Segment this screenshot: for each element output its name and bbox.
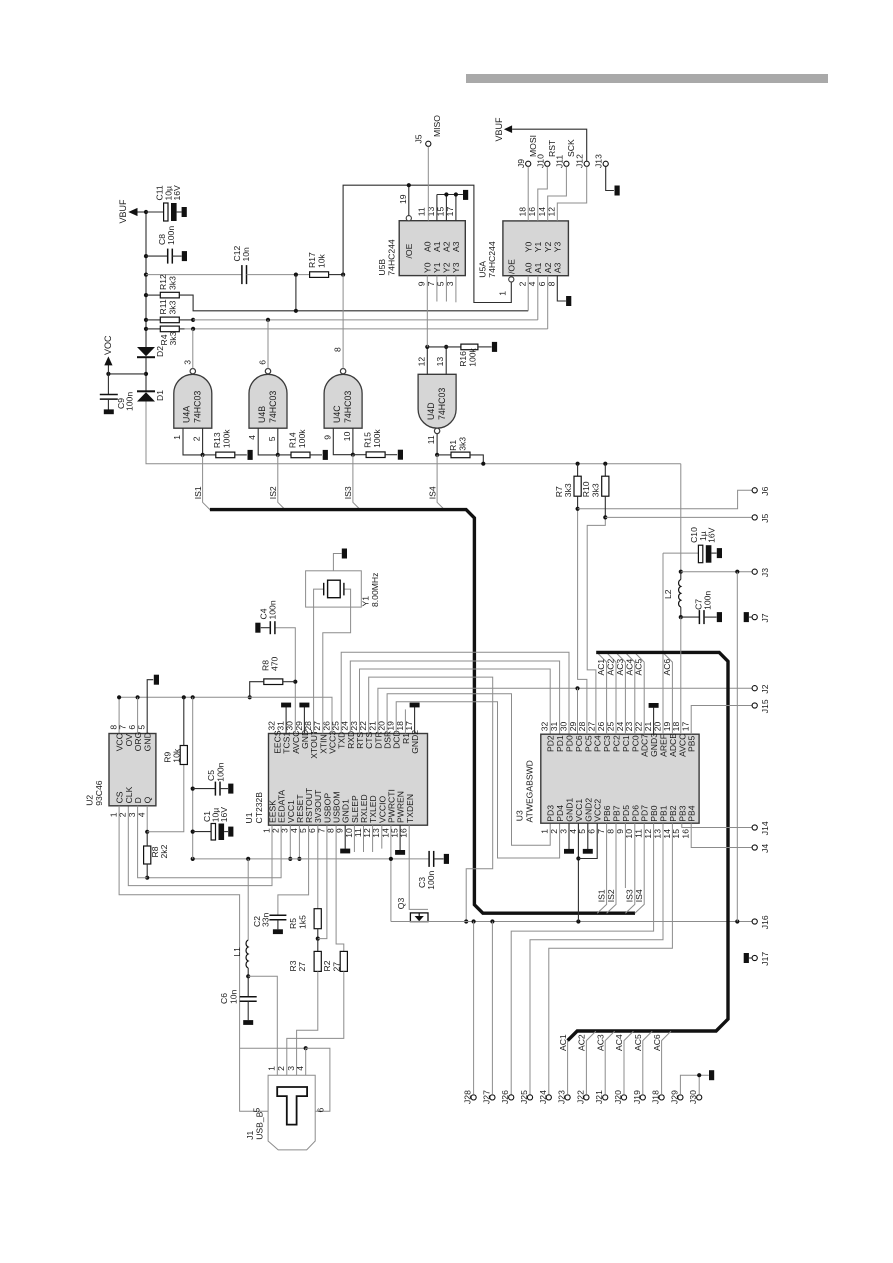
wire U5A A0 to R12 net [527, 276, 529, 311]
inductor L1 [246, 940, 248, 968]
svg-text:100n: 100n [702, 591, 712, 610]
junction VCC1 U3 [576, 919, 580, 923]
gate U4A [174, 374, 212, 428]
wire rail to C12 [146, 274, 242, 276]
wire C5 to ground [220, 788, 228, 790]
wire U4D pin12 [426, 347, 428, 374]
wire to R8 2k2 [146, 832, 148, 846]
svg-text:14: 14 [537, 207, 547, 217]
wire U5A A2 to R4 net [547, 276, 549, 329]
junction R9 VCC [182, 695, 186, 699]
svg-text:1: 1 [267, 1066, 277, 1071]
ground U5B A-tie [463, 190, 468, 200]
wire L2 to AVCC [680, 617, 682, 734]
wire IS1 entry [597, 823, 606, 913]
svg-text:U5B: U5B [377, 259, 387, 276]
svg-text:100k: 100k [468, 347, 478, 366]
header rule bar [466, 74, 828, 83]
svg-text:/OE: /OE [404, 243, 414, 258]
svg-text:1: 1 [172, 435, 182, 440]
wire U5B A3 stub [455, 195, 457, 221]
wire U3 GND1 stub [568, 823, 570, 849]
junction R12 riser [294, 309, 298, 313]
wire right VBUF rail [736, 572, 738, 922]
svg-text:J9: J9 [516, 159, 526, 168]
svg-text:U1: U1 [244, 812, 254, 823]
wire VBUF rail upper [145, 212, 147, 347]
wire R8 to AVCC [283, 681, 296, 683]
wire PB1 to J25 [530, 823, 663, 1095]
wire VOC tee [108, 373, 146, 375]
wire IS3 riser [353, 455, 360, 510]
wire J17 stub [749, 957, 752, 959]
connector J17 [752, 955, 757, 960]
wire U4D pin13 [445, 347, 447, 374]
wire node to R9 [147, 765, 184, 832]
svg-text:J14: J14 [760, 821, 770, 835]
svg-text:10k: 10k [172, 748, 182, 763]
svg-text:A2: A2 [442, 241, 452, 252]
svg-text:J21: J21 [594, 1090, 604, 1104]
transistor Q3 [410, 913, 428, 922]
junction R7 J6 [576, 507, 580, 511]
junction VCC U2 [117, 695, 121, 699]
USB T glyph [277, 1087, 307, 1125]
junction R10 top [603, 462, 607, 466]
wire R4 stub [179, 328, 184, 330]
junction L1 [246, 857, 250, 861]
svg-text:USB_B: USB_B [255, 1111, 265, 1139]
wire AC2 riser [586, 1031, 595, 1095]
wire IS4 entry [635, 823, 644, 913]
svg-text:L2: L2 [663, 589, 673, 599]
svg-text:Y0: Y0 [524, 241, 534, 252]
svg-text:6: 6 [316, 1108, 326, 1113]
svg-text:27: 27 [331, 962, 341, 972]
wire AC5 riser [643, 1031, 652, 1095]
svg-text:J18: J18 [651, 1090, 661, 1104]
wire 3V3OUT to R5 [317, 825, 319, 908]
svg-text:AC6: AC6 [652, 1034, 662, 1051]
svg-text:93C46: 93C46 [94, 780, 104, 806]
junction right rail top [735, 570, 739, 574]
junction VOC [144, 372, 148, 376]
capacitor C7 [699, 610, 704, 624]
svg-text:AC1: AC1 [558, 1034, 568, 1051]
connector J2 [752, 686, 757, 691]
connector J26 [509, 1095, 514, 1100]
wire AC6 bus entry [664, 653, 673, 734]
junction L2 C7 [679, 615, 683, 619]
svg-text:J29: J29 [669, 1090, 679, 1104]
wire RXLED stub [363, 825, 365, 852]
wire pin31 stub [285, 707, 287, 734]
wire rail lower [146, 401, 681, 464]
wire R12 net riser [295, 275, 297, 311]
wire AVCC net [275, 628, 295, 734]
svg-text:IS1: IS1 [193, 486, 203, 499]
connector J5 (MISO) [426, 141, 431, 146]
wire TXD to U3 PD0 [341, 652, 569, 734]
gate U4B [249, 374, 287, 428]
wire AREF riser [662, 553, 664, 734]
junction C-rail VCC [191, 695, 195, 699]
wire VBUF arrow stub [138, 211, 147, 213]
wire SLEEP stub [353, 825, 355, 852]
wire to R16 [427, 346, 461, 348]
wire MISO to U5B A0 [427, 147, 429, 221]
connector J18 [659, 1095, 664, 1100]
svg-text:U2: U2 [85, 795, 95, 806]
svg-text:PB5: PB5 [687, 736, 697, 752]
wire J10 to U5A Y1 [538, 166, 548, 221]
svg-text:3k3: 3k3 [458, 437, 468, 451]
wire IS4 riser [437, 455, 444, 510]
wire XTIN to Y1 [323, 589, 351, 733]
wire J11 to U5A Y2 [548, 166, 567, 221]
svg-text:TXDEN: TXDEN [405, 794, 415, 823]
junction rail left [191, 857, 195, 861]
wire U3 VCC2 [578, 823, 597, 858]
wire EEDATA to U2 [147, 825, 281, 878]
ground U2 [154, 675, 159, 685]
junction C12-R12 node [294, 273, 298, 277]
svg-text:9: 9 [417, 281, 427, 286]
junction CTS [464, 919, 468, 923]
svg-text:J25: J25 [519, 1090, 529, 1104]
wire C7 to ground [704, 616, 717, 618]
svg-text:3k3: 3k3 [167, 300, 177, 314]
wire to C5 [193, 788, 216, 790]
svg-text:Y1: Y1 [361, 596, 371, 607]
svg-text:100k: 100k [297, 429, 307, 448]
wire R11 net to U5A A1 [193, 319, 538, 321]
wire L2 in [680, 572, 682, 580]
svg-text:A0: A0 [524, 262, 534, 273]
junction C1 [191, 830, 195, 834]
ground U1 GND1 [340, 849, 350, 854]
connector J6 [752, 488, 757, 493]
wire IS1 riser [203, 455, 210, 510]
wire DCD to U3 PD4 [396, 702, 559, 858]
svg-text:74HC03: 74HC03 [343, 391, 353, 423]
wire U2 Q [146, 806, 148, 832]
wire R3 to USB pin3 [297, 971, 318, 1075]
junction inputs [276, 453, 280, 457]
ground R15 [398, 450, 403, 460]
svg-text:D1: D1 [155, 390, 165, 401]
wire AC4 riser [624, 1031, 633, 1095]
connector J23 [565, 1095, 570, 1100]
wire U2 GND [147, 680, 153, 734]
junction U4A out [191, 327, 195, 331]
svg-text:J2: J2 [760, 684, 770, 693]
wire RSTOUT to C2 [278, 825, 309, 915]
svg-text:U3: U3 [515, 810, 525, 821]
resistor R13 [216, 452, 235, 458]
svg-text:D2: D2 [155, 346, 165, 357]
svg-text:Y2: Y2 [543, 241, 553, 252]
diode D1 [137, 390, 155, 392]
junction A2 [444, 192, 448, 196]
connector J30 [697, 1095, 702, 1100]
wire R5 to node [317, 929, 319, 939]
junction inputs [351, 453, 355, 457]
svg-text:AC4: AC4 [614, 1034, 624, 1051]
junction inputs [201, 453, 205, 457]
IC U5A 74HC244 [503, 221, 569, 276]
wire VCC to L1 [247, 859, 249, 940]
connector J5 right [752, 515, 757, 520]
resistor R11 [160, 317, 179, 323]
connector J28 [471, 1095, 476, 1100]
svg-text:R15: R15 [362, 432, 372, 448]
svg-text:27: 27 [297, 962, 307, 972]
svg-text:74HC03: 74HC03 [437, 388, 447, 420]
svg-text:Y1: Y1 [533, 241, 543, 252]
wire U4D.11 [436, 434, 438, 455]
capacitor C2 [269, 915, 286, 920]
wire RESET stub [298, 825, 300, 859]
wire VOC arrow stub [107, 364, 109, 374]
wire IS3 entry [625, 823, 634, 913]
wire TXLED stub [372, 825, 374, 852]
svg-text:100n: 100n [215, 762, 225, 781]
wire GND1 stub [344, 825, 346, 849]
svg-text:3k3: 3k3 [591, 483, 601, 497]
wire AC4 riser [626, 653, 635, 734]
svg-text:Y0: Y0 [423, 262, 433, 273]
svg-text:J30: J30 [688, 1090, 698, 1104]
junction OE net [407, 183, 411, 187]
wire C6 to ground [247, 1001, 249, 1020]
svg-text:13: 13 [426, 207, 436, 217]
svg-text:100n: 100n [166, 226, 176, 245]
gate U4C [324, 374, 362, 428]
wire C12 to R17 [247, 274, 311, 276]
resistor R5 [314, 909, 321, 929]
connector J4 [752, 845, 757, 850]
svg-text:J5: J5 [414, 134, 424, 143]
junction R10 J5 [603, 515, 607, 519]
svg-text:12: 12 [416, 357, 426, 367]
wire to C11 [146, 211, 164, 213]
svg-text:IS2: IS2 [606, 889, 616, 902]
svg-text:J23: J23 [557, 1090, 567, 1104]
wire VCC rail 858 [193, 858, 429, 860]
resistor R15 [366, 452, 385, 458]
svg-text:J11: J11 [554, 155, 564, 168]
svg-text:16V: 16V [707, 527, 717, 543]
capacitor C12 [242, 265, 247, 284]
pin 19 /OE U5B [406, 216, 411, 221]
wire AC1 riser [598, 653, 607, 734]
junction R12 [144, 293, 148, 297]
svg-text:PB4: PB4 [687, 805, 697, 821]
svg-text:AC2: AC2 [577, 1034, 587, 1051]
connector J22 [584, 1095, 589, 1100]
wire R11 stub [179, 319, 193, 321]
svg-text:6: 6 [127, 725, 137, 730]
capacitor C10 [698, 545, 702, 563]
connector J7 [752, 615, 757, 620]
svg-text:VBUF: VBUF [118, 199, 128, 224]
wire RXD to U3 PD1 [350, 661, 559, 734]
wire U4C.8 to R17 node [342, 275, 344, 369]
wire U2 D to node [138, 806, 148, 878]
wire to J3 [681, 571, 752, 573]
wire C1 to ground [224, 831, 228, 833]
svg-text:VBUF: VBUF [494, 117, 504, 142]
power arrow VBUF (top right) [504, 125, 512, 133]
junction R8 VCC [248, 695, 252, 699]
svg-text:A2: A2 [543, 262, 553, 273]
resistor R8 2k2 [144, 846, 151, 864]
power arrow VBUF (left) [128, 208, 137, 216]
svg-text:100k: 100k [222, 429, 232, 448]
svg-text:10: 10 [342, 431, 352, 441]
svg-text:2: 2 [192, 436, 202, 441]
capacitor C9 [100, 395, 118, 400]
svg-text:4: 4 [247, 435, 257, 440]
junction C12 rail [144, 273, 148, 277]
resistor R14 [291, 452, 310, 458]
wire U3 VCC1 [577, 823, 579, 921]
wire to C6 [247, 976, 249, 996]
wire J23 riser [567, 1041, 569, 1095]
wire to R10 [604, 464, 606, 477]
wire J28 riser [473, 922, 475, 1095]
wire to R4 [146, 328, 160, 330]
wire IS2 entry [607, 823, 616, 913]
svg-text:A3: A3 [451, 241, 461, 252]
bus IS (thick) [210, 510, 635, 914]
svg-text:Q: Q [143, 796, 153, 803]
svg-text:18: 18 [518, 207, 528, 217]
wire J30 stub [698, 1075, 700, 1095]
svg-text:100n: 100n [125, 392, 135, 411]
wire R8 2k2 down [146, 864, 148, 878]
wire R7 out [577, 496, 579, 509]
pin 1 /OE U5A [509, 277, 514, 282]
wire R16 to ground [478, 346, 492, 348]
wire Y3 stub [455, 276, 457, 303]
wire J12 to U5A Y3 [557, 166, 586, 221]
ground U5A A3 [566, 296, 571, 306]
ground J7 [744, 612, 749, 622]
junction R4 [144, 327, 148, 331]
svg-text:6: 6 [537, 281, 547, 286]
wire shield to USB pin6 [306, 1048, 330, 1111]
IC U1 CT232B [269, 734, 428, 826]
svg-text:3k3: 3k3 [168, 331, 178, 345]
wire DSR to U3 PD3 [387, 694, 550, 846]
wire L2 out [680, 607, 682, 617]
wire EESK to U2 CLK [128, 806, 272, 886]
wire R10 to PC4 [587, 517, 605, 734]
svg-text:AC5: AC5 [633, 1034, 643, 1051]
svg-text:100n: 100n [268, 600, 278, 619]
wire U4B input pin 4 [258, 428, 278, 455]
svg-text:9: 9 [322, 435, 332, 440]
svg-text:J19: J19 [632, 1090, 642, 1104]
svg-text:3: 3 [182, 360, 192, 365]
ground C10 [717, 548, 722, 558]
wire AREF to C10 [663, 552, 698, 554]
ground C4 [255, 623, 260, 633]
svg-text:A1: A1 [432, 241, 442, 252]
capacitor C1 [211, 824, 215, 841]
connector J3 [752, 569, 757, 574]
wire A-tie [437, 194, 463, 196]
svg-text:J28: J28 [463, 1090, 473, 1104]
wire resistor to ground [385, 454, 397, 456]
svg-text:L1: L1 [232, 947, 242, 957]
svg-text:A3: A3 [553, 262, 563, 273]
junction PWRCTI rail [389, 857, 393, 861]
wire node to R3 [317, 939, 319, 952]
connector J25 [527, 1095, 532, 1100]
wire PB0 to J26 [511, 823, 653, 1095]
IC U5B 74HC244 [399, 221, 465, 276]
svg-text:IS4: IS4 [427, 486, 437, 499]
wire Q3 to J16 [391, 921, 752, 923]
wire IS2 riser [278, 455, 285, 510]
wire to C1 [193, 831, 211, 833]
junction ORG [136, 695, 140, 699]
ground J13 [615, 186, 620, 196]
ground U3 GND2 [583, 849, 593, 854]
crystal Y1 [324, 583, 344, 596]
connector J20 [621, 1095, 626, 1100]
svg-text:GND: GND [143, 732, 153, 751]
wire U4B.6 to R11 net [267, 320, 269, 369]
svg-text:IS4: IS4 [634, 889, 644, 902]
connector J1 USB_B [268, 1075, 315, 1150]
wire U5A A3 to ground [557, 276, 566, 301]
svg-text:Y3: Y3 [553, 241, 563, 252]
connector J27 [490, 1095, 495, 1100]
wire CTS net [369, 677, 493, 921]
wire to J6 [578, 490, 753, 509]
svg-text:J12: J12 [575, 154, 585, 168]
wire J7 stub [749, 616, 752, 618]
junction EEDATA [145, 876, 149, 880]
svg-text:2: 2 [276, 1066, 286, 1071]
svg-text:AC6: AC6 [662, 659, 672, 676]
capacitor C11 [164, 203, 168, 221]
wire VOC to C9 [107, 374, 109, 394]
ground C6 [243, 1020, 253, 1025]
junction L1 C6 [246, 974, 250, 978]
wire AC2 riser [607, 653, 616, 734]
svg-text:470: 470 [270, 656, 280, 671]
crystal Y1 case box [306, 571, 362, 607]
wire U5A A1 to R11 net [537, 276, 539, 320]
wire Y1 case to ground [333, 554, 341, 571]
wire C3 to ground [434, 858, 444, 860]
wire U2 CS to USB shield [119, 806, 268, 1111]
power arrow VOC (up) [104, 356, 112, 365]
wire R2 to USB pin2 [287, 971, 344, 1075]
svg-text:A0: A0 [423, 241, 433, 252]
wire PB3 to J14 [682, 823, 752, 827]
svg-text:J3: J3 [760, 568, 770, 577]
junction U4D.13 [444, 345, 448, 349]
wire AC3 riser [617, 653, 626, 734]
svg-text:ORG: ORG [133, 731, 143, 751]
junction R5 R3 [316, 937, 320, 941]
